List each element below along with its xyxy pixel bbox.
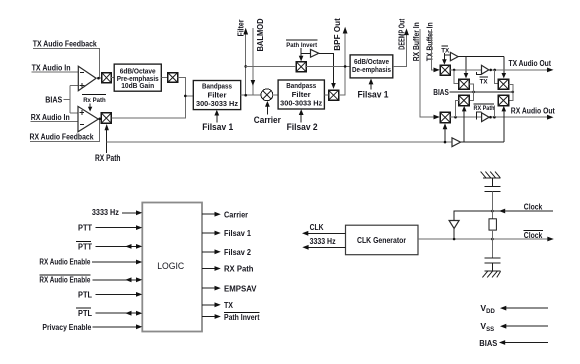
node PTL-bar input <box>76 308 143 318</box>
node BIAS pin <box>479 338 548 348</box>
switch S10 RX mute right <box>498 95 508 105</box>
capacitor C1 <box>484 178 500 192</box>
wire hook RX row to switch S9 <box>456 100 459 117</box>
pin BPF Out (vertical, up arrow) <box>332 18 348 95</box>
label Filsav 1 (de-emphasis) with arrow <box>358 79 389 100</box>
svg-text:Clock: Clock <box>524 230 543 240</box>
svg-text:10dB Gain: 10dB Gain <box>121 81 154 90</box>
svg-text:BIAS: BIAS <box>45 94 62 104</box>
svg-text:PTL: PTL <box>78 289 92 299</box>
svg-text:RX Audio Enable: RX Audio Enable <box>39 257 90 267</box>
svg-text:BIAS: BIAS <box>479 338 497 348</box>
buffer B3 TX audio out <box>476 65 489 85</box>
inverter B6 clock <box>449 221 459 240</box>
pin TX Buffer In (vertical) <box>424 22 440 72</box>
buffer B1 path invert control <box>301 49 336 89</box>
node EMPSAV output <box>202 283 257 293</box>
label Rx Path (op-amp enable) <box>82 95 106 112</box>
ground top (hatched) <box>481 172 501 178</box>
node 3333 Hz input <box>92 207 142 217</box>
node TX Audio Feedback <box>33 39 100 79</box>
switch S8 TX mute right <box>498 79 508 89</box>
svg-text:RX Audio Enable: RX Audio Enable <box>39 275 90 285</box>
svg-text:RX Path: RX Path <box>95 153 121 163</box>
node PTT input <box>78 223 142 233</box>
svg-text:RX Audio Feedback: RX Audio Feedback <box>30 132 94 142</box>
node Filsav 2 output <box>202 247 251 257</box>
svg-text:Bandpass: Bandpass <box>286 81 316 90</box>
wire clock node chain <box>491 192 493 219</box>
svg-text:Filsav 1: Filsav 1 <box>358 89 389 99</box>
ground bottom (hatched) <box>482 271 500 277</box>
wire resistor to cap2 <box>491 230 493 258</box>
label RX Path with control arrow and control net <box>95 124 121 163</box>
wire bypass line (Filter node to de-emphasis) <box>246 65 297 67</box>
wire BPF2 to S5 <box>324 94 328 96</box>
svg-text:Filsav 2: Filsav 2 <box>224 247 251 257</box>
svg-text:TX: TX <box>480 78 488 85</box>
wire U2 output to switch <box>98 117 101 119</box>
node RX Audio Feedback <box>30 119 100 142</box>
node BIAS <box>45 85 78 113</box>
wire RX out row <box>450 116 481 118</box>
pin DEEMP Out (vertical, up arrow) <box>393 19 409 67</box>
node VDD <box>480 303 548 315</box>
svg-text:PTT: PTT <box>78 223 93 233</box>
svg-text:Rx Path: Rx Path <box>83 97 106 104</box>
svg-text:Privacy Enable: Privacy Enable <box>42 322 91 332</box>
wire CLK generator to clock-bar output <box>418 238 550 240</box>
switch S11 RX buffer in <box>440 112 450 122</box>
svg-text:3333 Hz: 3333 Hz <box>310 236 336 246</box>
svg-text:BPF Out: BPF Out <box>332 18 342 51</box>
wire TX out row <box>450 69 482 71</box>
wire bracket A column to BIAS rail <box>469 84 474 100</box>
wire hook RX row to switch S10 <box>493 106 495 118</box>
svg-text:Filsav 2: Filsav 2 <box>287 122 318 132</box>
capacitor C2 <box>485 258 501 271</box>
wire mixer to BPF2 <box>273 94 278 96</box>
wire TX audio out line <box>489 69 550 71</box>
svg-text:Bandpass: Bandpass <box>202 81 232 90</box>
svg-text:300-3033 Hz: 300-3033 Hz <box>280 99 322 108</box>
wire RX control to switch S9 <box>462 106 467 142</box>
svg-text:EMPSAV: EMPSAV <box>224 283 257 293</box>
svg-text:PTL: PTL <box>78 308 92 318</box>
op-amp U2 RX input amp <box>78 106 98 131</box>
svg-text:RX Audio Out: RX Audio Out <box>511 106 555 116</box>
op-amp U1 TX input amp <box>78 66 96 90</box>
wire S1 to pre-emphasis <box>111 77 114 79</box>
svg-text:TX Buffer In: TX Buffer In <box>424 22 434 61</box>
svg-text:CLK Generator: CLK Generator <box>357 235 407 245</box>
svg-text:BIAS: BIAS <box>433 87 449 97</box>
svg-text:PTT: PTT <box>78 241 93 251</box>
svg-text:BALMOD: BALMOD <box>255 19 265 52</box>
pin BALMOD (vertical, arrow into mixer) <box>251 19 265 95</box>
wire U1 output to switch <box>96 77 102 79</box>
svg-text:Carrier: Carrier <box>224 209 249 219</box>
svg-text:TX: TX <box>441 47 449 54</box>
wire hook TX row to switch S8 <box>495 70 499 84</box>
svg-text:Filsav 1: Filsav 1 <box>224 228 251 238</box>
svg-text:TX Audio Feedback: TX Audio Feedback <box>33 39 97 49</box>
wire pre-emphasis to switch S3 <box>161 77 168 79</box>
svg-text:TX Audio Out: TX Audio Out <box>509 58 552 68</box>
box pre-emphasis <box>114 64 161 91</box>
node VSS <box>480 321 548 333</box>
svg-text:RX Path: RX Path <box>224 264 254 274</box>
svg-text:3333 Hz: 3333 Hz <box>92 207 119 217</box>
wire RX control to switch S10 <box>502 106 507 142</box>
pin Filter (vertical, up arrow) <box>235 19 248 97</box>
label Filsav 2 with arrow <box>287 109 318 132</box>
wire BPF1 output to mixer <box>241 94 261 96</box>
svg-text:300-3033 Hz: 300-3033 Hz <box>196 99 238 108</box>
wire bracket B column to BIAS rail <box>509 85 513 101</box>
svg-text:Path Invert: Path Invert <box>286 42 318 49</box>
box bandpass filter 2 <box>278 80 324 109</box>
wire RX audio out line <box>489 116 549 118</box>
node BIAS rail <box>433 87 514 97</box>
node TX output <box>202 300 233 310</box>
node RX Audio In <box>31 112 78 122</box>
svg-text:De-emphasis: De-emphasis <box>352 65 391 74</box>
node CLK output <box>302 222 346 236</box>
label Path Invert with control arrow <box>286 40 318 61</box>
node TX Audio In <box>32 62 79 72</box>
box CLK Generator <box>346 225 419 255</box>
wire TX control to switch S7 <box>464 57 469 79</box>
wire TX control to switch S8 <box>502 57 507 79</box>
buffer B4 RX audio out <box>474 104 495 122</box>
node Filsav 1 output <box>202 228 251 238</box>
switch S4 path invert (bypass line) <box>296 62 306 72</box>
svg-text:CLK: CLK <box>310 222 325 232</box>
svg-text:Carrier: Carrier <box>254 115 282 125</box>
node RX Audio Enable input <box>39 257 142 267</box>
buffer B2 TX control <box>444 52 503 60</box>
svg-text:TX Audio In: TX Audio In <box>32 62 71 72</box>
switch S3 after pre-emphasis <box>168 73 178 83</box>
node Path Invert output <box>202 312 260 322</box>
svg-text:RX Audio In: RX Audio In <box>31 112 70 122</box>
label Carrier with arrow into mixer <box>254 101 282 125</box>
wire RX Path control to S11 <box>443 123 448 143</box>
node Carrier output <box>202 209 249 219</box>
label TX control with arrow <box>441 46 449 65</box>
buffer B5 RX path control <box>452 138 504 147</box>
wire RX Path control line to output section <box>107 141 452 143</box>
node Clock-bar <box>523 230 543 240</box>
pin RX Buffer In (vertical) <box>411 22 440 119</box>
svg-text:LOGIC: LOGIC <box>157 261 184 272</box>
switch S6 TX buffer in <box>440 65 450 75</box>
switch S9 RX mute left <box>459 95 469 105</box>
switch S7 TX mute left <box>459 79 469 89</box>
box bandpass filter 1 <box>193 81 240 110</box>
svg-text:RX Path: RX Path <box>474 105 495 112</box>
switch S5 after BPF2 <box>329 90 339 100</box>
switch S1 TX path <box>102 73 111 83</box>
node PTT-bar input <box>76 241 143 251</box>
switch S2 RX path <box>101 113 111 123</box>
svg-text:Filsav 1: Filsav 1 <box>202 122 233 132</box>
wire S3 down to filter input node <box>178 78 194 96</box>
resistor R1 <box>489 219 496 230</box>
node 3333 Hz output <box>302 236 345 250</box>
svg-text:Path Invert: Path Invert <box>224 312 260 322</box>
svg-text:Clock: Clock <box>524 201 543 211</box>
mixer M1 (balanced modulator) <box>261 89 273 101</box>
svg-text:TX: TX <box>224 300 233 310</box>
node RX Audio Enable-bar input <box>39 275 142 285</box>
node Privacy Enable input <box>42 322 142 332</box>
wire hook TX row to switch S7 <box>454 70 459 84</box>
node PTL input <box>78 289 142 299</box>
node RX Path output <box>202 264 254 274</box>
box LOGIC <box>142 203 202 332</box>
node Clock input <box>454 201 553 220</box>
wire S2 output to filter input node <box>111 96 185 118</box>
label Filsav 1 with arrow <box>202 110 233 132</box>
box de-emphasis <box>350 55 393 78</box>
